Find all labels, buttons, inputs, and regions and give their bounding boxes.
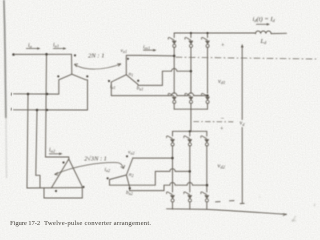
svg-text:va1: va1: [121, 48, 127, 54]
thyristors: [166, 37, 209, 202]
polarity dot wye2 secondary b2: [129, 187, 131, 189]
junction bridge1 leg1 ac input: [173, 55, 175, 57]
junction phase c tap: [36, 109, 38, 111]
svg-text:ias1: ias1: [143, 45, 150, 51]
series link bridge1 to bridge2: [190, 109, 192, 131]
junction phase b crossing: [46, 93, 48, 95]
junction bridge1 leg2 ac input: [190, 70, 192, 72]
svg-text:vd: vd: [240, 121, 246, 128]
inductor Ld: [256, 31, 272, 34]
svg-text:Ld: Ld: [260, 38, 268, 45]
svg-text:ia1: ia1: [53, 43, 59, 49]
dash line series midpoint: [194, 121, 233, 123]
svg-text:Figure 17-2: Figure 17-2: [10, 220, 40, 227]
arc 2N:1: [74, 64, 121, 69]
box left edge: [43, 188, 45, 198]
wye2 left terminal down and route to bridge2 leg2: [110, 169, 190, 186]
thyristor T6: [185, 93, 193, 103]
delta primary triangle: [52, 159, 83, 188]
node phase a terminal: [12, 53, 15, 56]
polarity dot primary wye left: [57, 75, 59, 77]
wye1 left terminal down: [110, 82, 112, 96]
tap b vertical: [27, 94, 28, 188]
current arrows: [26, 23, 270, 155]
junction bridge2 top bus leg2: [189, 130, 191, 132]
thyristor T3: [185, 37, 193, 47]
wye1 secondary right leg: [126, 75, 138, 85]
svg-text:vd1: vd1: [218, 78, 225, 85]
wire wye1 right to bridge1 leg2 with hop: [138, 69, 191, 86]
svg-text:+: +: [220, 126, 224, 133]
svg-text:id(t) = Id: id(t) = Id: [253, 16, 276, 23]
thyristor T5b: [201, 136, 209, 146]
wye2 secondary bottom leg: [126, 175, 129, 187]
phase a line: [15, 53, 72, 55]
svg-text:n1: n1: [129, 72, 134, 78]
vd measurement line: [241, 47, 243, 204]
bridge1 bottom bus: [174, 108, 207, 110]
svg-text:2N : 1: 2N : 1: [88, 53, 104, 60]
junction phase b tap: [27, 93, 29, 95]
wye2 secondary left leg: [110, 175, 127, 180]
wye2 secondary top leg: [126, 158, 133, 176]
polarity dot delta top: [62, 161, 64, 163]
wye1 primary right leg diagonal: [72, 74, 88, 110]
junction bridge2 leg3 ac input: [206, 184, 208, 186]
svg-text:ia1: ia1: [110, 84, 116, 90]
arrow i_d: [256, 23, 268, 25]
bridge2 top bus: [173, 130, 207, 132]
small dashes near bridge2 bottom: [216, 201, 235, 202]
page edge shadow line: [4, 0, 7, 178]
svg-text:n2: n2: [129, 172, 134, 178]
junction bridge1 top bus leg2: [190, 32, 192, 34]
thyristor T2b: [201, 192, 209, 202]
thyristor T1: [168, 37, 176, 47]
wire after inductor: [271, 32, 286, 34]
thyristor T6b: [184, 192, 192, 202]
svg-text:Twelve-pulse converter arrange: Twelve-pulse converter arrangement.: [44, 220, 151, 227]
phase a corner down to wye1 primary top leg: [71, 54, 73, 74]
phase b line: [14, 93, 59, 95]
wire top bus to inductor: [254, 32, 257, 35]
wire wye1 top to bridge1 leg1: [140, 54, 174, 57]
junction bridge2 leg1 ac input: [171, 157, 173, 159]
phase c line: [14, 109, 88, 111]
svg-text:2√3N : 1: 2√3N : 1: [84, 154, 107, 162]
svg-text:vd2: vd2: [218, 163, 226, 170]
thyristor T4b: [166, 192, 174, 202]
polarity dot wye2 secondary c2: [107, 177, 109, 179]
arrow i_a1: [53, 48, 64, 50]
bridge1 top bus: [174, 32, 255, 34]
svg-text:ia2: ia2: [105, 167, 111, 173]
junction phase a tap: [45, 53, 47, 55]
arrow i_a: [26, 48, 38, 50]
wye2 bottom terminal route to bridge2 leg3 with hops: [130, 182, 208, 190]
svg-text:−: −: [221, 116, 225, 123]
polarity dot wye2 secondary a2: [126, 155, 128, 157]
polarity dot primary wye right: [86, 75, 88, 77]
thyristor T4: [168, 93, 176, 103]
wire under delta: [27, 187, 82, 189]
svg-text:ba2: ba2: [126, 190, 133, 196]
polarity dot wye1 secondary a1: [127, 58, 129, 60]
dash-dot line from bridge1 leg1 junction: [176, 57, 316, 59]
junction phase c crossing: [46, 109, 48, 111]
wire wye1 left to bridge1 leg3 with hops: [111, 93, 207, 96]
ratio arcs: [55, 64, 125, 175]
arrow i_a2: [49, 153, 60, 155]
polarity dot primary wye top: [74, 54, 76, 56]
wye1 secondary top leg: [126, 55, 140, 74]
box route to delta right vertex: [44, 187, 82, 198]
svg-text:va2: va2: [128, 150, 134, 156]
thyristor T5: [201, 37, 209, 47]
junction bridge2 leg2 ac input: [189, 170, 191, 172]
polarity dot delta bottom: [55, 190, 57, 192]
tap c staircase: [36, 175, 40, 187]
vd arrowhead: [241, 44, 244, 48]
phase b end tick: [10, 93, 12, 96]
tap a vertical: [46, 54, 47, 157]
stray pen mark bottom right: [259, 197, 315, 222]
tap c vertical: [36, 110, 37, 175]
tap a horizontal to delta top: [46, 157, 69, 159]
bridge1 legs: [173, 33, 175, 109]
svg-text:ba1: ba1: [137, 85, 144, 91]
phase c end tick: [10, 108, 12, 111]
wye1 secondary left leg: [111, 75, 126, 82]
svg-text:ia2: ia2: [49, 148, 56, 154]
polarity dot delta right: [82, 186, 84, 188]
bridge2 bottom bus and output wire: [167, 209, 287, 215]
bridge2 legs: [172, 131, 174, 209]
thyristor T3b: [184, 136, 192, 146]
wire wye2 top to bridge2 leg1: [133, 157, 173, 159]
junction / polarity dots: [10, 93, 13, 111]
junction bridge1 top bus leg3: [207, 32, 209, 34]
arc 2sqrt3N:1: [55, 163, 124, 175]
polarity dot wye1 secondary b1: [137, 80, 139, 82]
thyristor T2: [201, 93, 209, 103]
polarity dot wye1 secondary c1: [108, 80, 110, 82]
wye1 primary left leg diagonal: [59, 74, 72, 94]
thyristor T1b: [166, 136, 174, 146]
svg-text:+: +: [221, 42, 225, 49]
junction bridge1 leg3 ac input: [206, 94, 208, 96]
arrow i_as1: [143, 49, 154, 51]
